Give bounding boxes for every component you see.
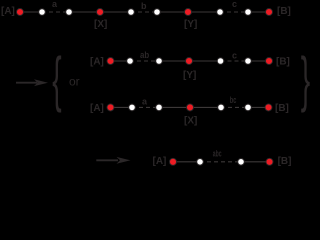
svg-text:[A]: [A] bbox=[1, 6, 15, 17]
wire row1 m2-X bbox=[69, 11, 100, 13]
svg-text:[B]: [B] bbox=[275, 103, 289, 114]
node A bottom (red) bbox=[170, 158, 177, 165]
svg-text:{: { bbox=[52, 46, 61, 114]
node marker row1 (white) bbox=[128, 9, 135, 16]
svg-text:bc: bc bbox=[230, 95, 237, 105]
node X row1 (red) bbox=[97, 9, 104, 16]
node Y row2 (red) bbox=[186, 58, 193, 65]
wire row1 interval a (dashed) bbox=[42, 11, 69, 13]
arrow into final map bbox=[96, 157, 130, 164]
svg-text:[A]: [A] bbox=[90, 103, 104, 114]
arrow head bottom bbox=[117, 157, 131, 164]
wire row1 interval b (dashed) bbox=[131, 11, 157, 13]
node A row3 (red) bbox=[107, 104, 114, 111]
node B row1 (red) bbox=[266, 9, 273, 16]
svg-text:[B]: [B] bbox=[277, 6, 291, 17]
wire row3 m4-B bbox=[248, 106, 269, 108]
wire row3 A-m1 bbox=[111, 106, 133, 108]
arrow into alternatives bbox=[16, 79, 48, 86]
svg-text:[X]: [X] bbox=[184, 116, 197, 127]
node marker row1 (white) bbox=[245, 9, 252, 16]
wire row1 m6-B bbox=[248, 11, 269, 13]
node marker row3 (white) bbox=[218, 104, 225, 111]
wire bottom m2-B bbox=[241, 161, 270, 163]
node marker row1 (white) bbox=[39, 9, 46, 16]
arrow shaft mid bbox=[16, 82, 37, 84]
wire bottom A-m1 bbox=[173, 161, 200, 163]
row3: map [A]-a-[X]-bc-[B] bbox=[90, 95, 289, 127]
svg-text:[A]: [A] bbox=[90, 57, 104, 68]
svg-text:}: } bbox=[301, 46, 310, 114]
svg-text:[A]: [A] bbox=[153, 156, 167, 167]
wire row3 interval bc (dashed) bbox=[221, 106, 248, 108]
wire row3 m2-X bbox=[159, 106, 190, 108]
node marker row2 (white) bbox=[127, 58, 134, 65]
node marker row3 (white) bbox=[156, 104, 163, 111]
node marker row3 (white) bbox=[245, 104, 252, 111]
wire row1 A-m1 bbox=[20, 11, 42, 13]
wire row3 interval a (dashed) bbox=[132, 106, 159, 108]
node marker row1 (white) bbox=[66, 9, 73, 16]
node marker bottom (white) bbox=[238, 159, 245, 166]
wire row1 interval c (dashed) bbox=[220, 11, 248, 13]
node marker row2 (white) bbox=[217, 58, 224, 65]
row1: map [A]-a-[X]-b-[Y]-c-[B] bbox=[1, 0, 291, 30]
wire row2 interval c (dashed) bbox=[221, 60, 249, 62]
node Y row1 (red) bbox=[185, 9, 192, 16]
node B bottom (red) bbox=[266, 158, 273, 165]
wire row2 m4-B bbox=[248, 60, 269, 62]
svg-text:[Y]: [Y] bbox=[183, 70, 196, 81]
svg-text:or: or bbox=[69, 75, 80, 89]
wire row2 m2-Y bbox=[159, 60, 189, 62]
node B row3 (red) bbox=[265, 104, 272, 111]
wire row1 X-m3 bbox=[100, 11, 131, 13]
node marker row2 (white) bbox=[156, 58, 163, 65]
wire row1 Y-m5 bbox=[188, 11, 220, 13]
svg-text:c: c bbox=[232, 51, 237, 61]
arrow shaft bottom bbox=[96, 159, 118, 161]
svg-text:b: b bbox=[141, 1, 147, 11]
arrow head mid bbox=[34, 79, 48, 86]
row2: map [A]-ab-[Y]-c-[B] bbox=[90, 50, 290, 81]
node marker bottom (white) bbox=[197, 159, 204, 166]
node marker row1 (white) bbox=[154, 9, 161, 16]
svg-text:[X]: [X] bbox=[94, 19, 107, 30]
svg-text:ab: ab bbox=[140, 50, 150, 60]
svg-text:c: c bbox=[232, 0, 237, 9]
wire row3 X-m3 bbox=[190, 106, 221, 108]
wire row2 Y-m3 bbox=[189, 60, 221, 62]
svg-text:[B]: [B] bbox=[278, 156, 292, 167]
wire row1 m4-Y bbox=[157, 11, 188, 13]
node B row2 (red) bbox=[266, 58, 273, 65]
svg-text:[Y]: [Y] bbox=[184, 19, 197, 30]
node marker row3 (white) bbox=[129, 104, 136, 111]
wire bottom interval abc (dashed) bbox=[200, 161, 241, 163]
node marker row2 (white) bbox=[245, 58, 252, 65]
node marker row1 (white) bbox=[217, 9, 224, 16]
node A row1 (red) bbox=[17, 9, 24, 16]
svg-text:abc: abc bbox=[213, 149, 222, 159]
node X row3 (red) bbox=[187, 104, 194, 111]
wire row2 A-m1 bbox=[111, 60, 131, 62]
node A row2 (red) bbox=[107, 58, 114, 65]
svg-text:[B]: [B] bbox=[276, 57, 290, 68]
wire row2 interval ab (dashed) bbox=[130, 60, 159, 62]
bottom row: map [A]-abc-[B] bbox=[153, 149, 292, 168]
